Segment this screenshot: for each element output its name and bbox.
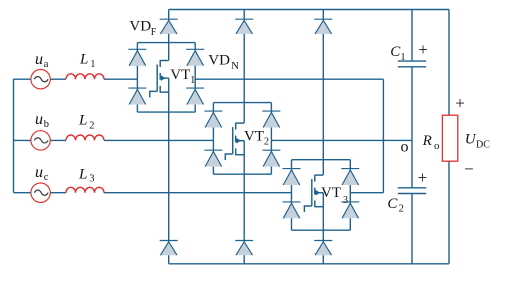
svg-text:1: 1 (90, 59, 95, 70)
svg-text:VD: VD (208, 53, 230, 69)
svg-text:2: 2 (264, 137, 269, 148)
svg-text:u: u (35, 51, 43, 68)
svg-text:L: L (78, 113, 87, 129)
svg-text:3: 3 (89, 174, 94, 185)
svg-text:L: L (79, 52, 88, 68)
svg-text:1: 1 (190, 75, 195, 86)
svg-text:U: U (465, 132, 477, 148)
svg-text:N: N (231, 61, 239, 72)
svg-text:a: a (44, 59, 49, 70)
svg-text:R: R (422, 133, 432, 149)
svg-text:VT: VT (321, 185, 341, 201)
svg-text:b: b (44, 119, 49, 130)
svg-text:+: + (455, 93, 465, 112)
svg-text:3: 3 (343, 195, 348, 206)
svg-text:2: 2 (89, 120, 94, 131)
svg-text:o: o (401, 138, 409, 155)
svg-text:u: u (35, 111, 43, 128)
svg-text:1: 1 (401, 52, 406, 63)
svg-text:F: F (151, 27, 157, 38)
svg-text:DC: DC (476, 140, 490, 151)
svg-text:−: − (464, 160, 474, 179)
svg-text:+: + (418, 40, 428, 59)
svg-text:VD: VD (129, 19, 151, 35)
svg-text:+: + (418, 168, 428, 187)
svg-text:C: C (387, 196, 398, 212)
svg-text:o: o (434, 140, 440, 152)
svg-text:2: 2 (399, 204, 404, 215)
svg-text:L: L (78, 166, 87, 182)
svg-text:VT: VT (170, 67, 190, 83)
svg-text:VT: VT (244, 128, 264, 144)
svg-text:u: u (35, 164, 43, 181)
svg-text:c: c (44, 172, 49, 183)
